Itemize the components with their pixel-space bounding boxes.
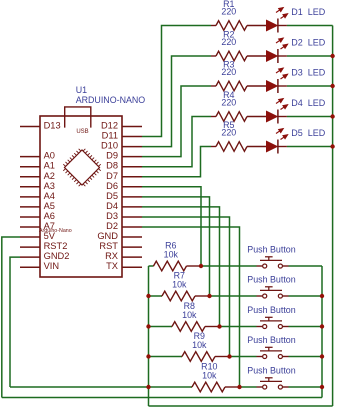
svg-text:USB: USB: [76, 129, 88, 135]
resistor R4: [211, 112, 267, 122]
junction resistor bus row 3: [146, 324, 150, 328]
svg-text:D11: D11: [102, 131, 118, 141]
wire GND bottom to resistor bus node: [10, 386, 149, 388]
pin D13: [20, 121, 61, 131]
wire R10 left lead to bus: [149, 386, 193, 388]
pin D10: [101, 141, 142, 151]
push button S3: [257, 317, 289, 328]
svg-text:GND: GND: [97, 231, 118, 241]
svg-text:10k: 10k: [172, 280, 187, 290]
svg-text:D1 LED: D1 LED: [291, 7, 326, 17]
svg-text:D13: D13: [44, 121, 61, 131]
pin VIN: [20, 261, 59, 271]
push button S4: [257, 347, 289, 358]
pin A5: [20, 201, 55, 211]
svg-text:A3: A3: [44, 181, 55, 191]
svg-text:Push Button: Push Button: [247, 335, 295, 345]
wire D3 to button row 4: [142, 217, 230, 357]
wire D6 to button row 1: [142, 187, 201, 266]
svg-text:A2: A2: [44, 171, 55, 181]
svg-text:D7: D7: [106, 171, 118, 181]
junction pin riser row 1: [199, 264, 203, 268]
wire push button 5 to 5V rail: [289, 386, 323, 388]
wire push button 4 to 5V rail: [289, 356, 323, 358]
wire D4 to button row 3: [142, 207, 220, 327]
junction LED rail row 3: [330, 84, 334, 88]
wire resistor left bus vertical: [148, 266, 150, 406]
wire D2 to button row 5: [142, 227, 240, 387]
wire D5 to button row 2: [142, 197, 210, 296]
pin D11: [102, 131, 142, 141]
wire node row5 to push button 5: [240, 386, 257, 388]
wire D2 LED cathode to rail: [287, 55, 333, 57]
wire D4 LED cathode to rail: [287, 116, 333, 118]
push button S1: [257, 257, 289, 268]
wire node row3 to push button 3: [220, 326, 257, 328]
wire D10 to R2: [142, 56, 211, 147]
wire node row2 to push button 2: [210, 295, 257, 297]
junction resistor bus row 4: [146, 354, 150, 358]
svg-text:10k: 10k: [182, 310, 197, 320]
junction button rail row 3: [320, 324, 324, 328]
svg-text:D8: D8: [106, 161, 118, 171]
wire R8 left lead to bus: [149, 326, 173, 328]
svg-text:GND2: GND2: [44, 251, 70, 261]
pin GND2: [20, 251, 69, 261]
pin D2: [106, 221, 142, 231]
junction pin riser row 3: [217, 324, 221, 328]
svg-text:A0: A0: [44, 151, 55, 161]
wire R6 left lead to bus: [149, 265, 154, 267]
resistor R5: [211, 142, 267, 152]
pin RX: [105, 251, 142, 261]
svg-text:D4: D4: [106, 201, 118, 211]
svg-text:220: 220: [221, 67, 236, 77]
pin D6: [106, 181, 142, 191]
resistor R3: [211, 81, 267, 91]
wire node row1 to push button 1: [201, 265, 257, 267]
wire R7 left lead to bus: [149, 295, 163, 297]
wire D5 LED cathode to rail: [287, 146, 333, 148]
wire GND bottom rail to LED cathode rail: [149, 405, 333, 407]
wire D11 to R1: [142, 26, 211, 137]
wire R9 left lead to bus: [149, 356, 183, 358]
pin A0: [20, 151, 55, 161]
wire D8 to R4: [142, 117, 211, 167]
wire push button 2 to 5V rail: [289, 295, 323, 297]
svg-text:A1: A1: [44, 161, 55, 171]
svg-text:A7: A7: [44, 221, 55, 231]
pin GND: [97, 231, 142, 241]
svg-text:5V: 5V: [44, 231, 56, 241]
pin A2: [20, 171, 55, 181]
svg-text:Push Button: Push Button: [247, 245, 295, 255]
junction LED rail row 4: [330, 114, 334, 118]
svg-text:D12: D12: [101, 121, 118, 131]
junction pin riser row 4: [227, 354, 231, 358]
pin D3: [106, 211, 142, 221]
wire GND2 pin to left GND rail: [10, 257, 20, 387]
resistor R10: [192, 382, 240, 392]
junction resistor bus row 2: [146, 294, 150, 298]
svg-text:D4 LED: D4 LED: [291, 98, 326, 108]
chip glyph inside U1: [60, 145, 104, 189]
pin TX: [106, 261, 142, 271]
junction button rail row 2: [320, 294, 324, 298]
pin A7: [20, 221, 55, 231]
svg-text:RST2: RST2: [44, 241, 68, 251]
push button S2: [257, 287, 289, 298]
wire 5V pin to left 5V rail: [2, 237, 20, 397]
svg-text:A5: A5: [44, 201, 55, 211]
wire 5V bottom rail to push-button rail: [2, 397, 322, 399]
svg-text:Push Button: Push Button: [247, 275, 295, 285]
pin RST: [99, 241, 142, 251]
pin D5: [106, 191, 142, 201]
svg-text:D3: D3: [106, 211, 118, 221]
svg-text:D2 LED: D2 LED: [291, 37, 326, 47]
junction resistor bus GND node: [146, 385, 150, 389]
pin RST2: [20, 241, 67, 251]
IC U1 ARDUINO-NANO body: [40, 116, 122, 277]
svg-text:A4: A4: [44, 191, 55, 201]
pin D12: [101, 121, 142, 131]
wire D1 LED cathode to rail: [287, 25, 333, 27]
junction button rail row 5: [320, 385, 324, 389]
LED D3: [267, 68, 288, 93]
svg-text:10k: 10k: [164, 250, 179, 260]
svg-text:220: 220: [221, 128, 236, 138]
wire push button 3 to 5V rail: [289, 326, 323, 328]
wire node row4 to push button 4: [230, 356, 257, 358]
junction LED rail row 2: [330, 54, 334, 58]
resistor R8: [172, 322, 220, 332]
svg-text:10k: 10k: [192, 340, 207, 350]
svg-text:220: 220: [221, 7, 236, 17]
svg-text:Push Button: Push Button: [247, 366, 295, 376]
wire D9 to R3: [142, 86, 211, 157]
junction pin riser row 5: [237, 385, 241, 389]
wire LED cathode rail vertical: [332, 26, 334, 407]
wire D3 LED cathode to rail: [287, 85, 333, 87]
push button S5: [257, 378, 289, 389]
svg-text:U1: U1: [76, 85, 87, 95]
resistor R1: [211, 21, 267, 31]
wire push-button right rail vertical: [321, 266, 323, 398]
svg-text:RX: RX: [105, 251, 118, 261]
LED D2: [267, 38, 288, 63]
pin A4: [20, 191, 55, 201]
svg-text:D6: D6: [106, 181, 118, 191]
LED D5: [267, 129, 288, 154]
pin 5V: [20, 231, 56, 241]
svg-text:A6: A6: [44, 211, 55, 221]
svg-text:D10: D10: [101, 141, 118, 151]
resistor R7: [162, 291, 210, 301]
svg-text:RST: RST: [99, 241, 118, 251]
pin A3: [20, 181, 55, 191]
svg-text:220: 220: [221, 98, 236, 108]
LED D1: [267, 8, 288, 33]
svg-text:10k: 10k: [202, 371, 217, 381]
LED D4: [267, 99, 288, 124]
svg-text:D3 LED: D3 LED: [291, 67, 326, 77]
resistor R6: [153, 261, 201, 271]
svg-text:D2: D2: [106, 221, 118, 231]
pin A1: [20, 161, 55, 171]
junction button rail row 4: [320, 354, 324, 358]
pin A6: [20, 211, 55, 221]
pin D9: [106, 151, 142, 161]
svg-text:ARDUINO-NANO: ARDUINO-NANO: [76, 95, 146, 105]
pin D8: [106, 161, 142, 171]
junction pin riser row 2: [207, 294, 211, 298]
svg-text:Push Button: Push Button: [247, 305, 295, 315]
resistor R2: [211, 51, 267, 61]
svg-text:D9: D9: [106, 151, 118, 161]
wire D7 to R5: [142, 147, 211, 177]
resistor R9: [182, 352, 230, 362]
svg-text:TX: TX: [106, 261, 118, 271]
svg-text:D5: D5: [106, 191, 118, 201]
USB notch: [65, 107, 91, 128]
wire push button 1 to 5V rail: [289, 265, 323, 267]
svg-text:D5 LED: D5 LED: [291, 128, 326, 138]
svg-text:VIN: VIN: [44, 261, 60, 271]
junction LED rail row 5: [330, 144, 334, 148]
pin D4: [106, 201, 142, 211]
pin D7: [106, 171, 142, 181]
svg-text:220: 220: [221, 37, 236, 47]
